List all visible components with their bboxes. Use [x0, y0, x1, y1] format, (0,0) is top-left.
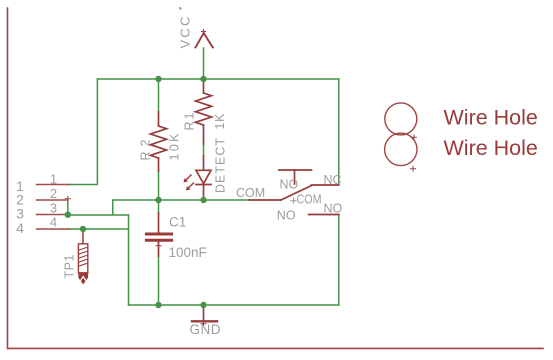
- svg-text:R1: R1: [183, 112, 197, 130]
- svg-text:1K: 1K: [213, 113, 227, 130]
- junction middle rail at C1: [155, 197, 161, 203]
- wire C1 bottom: [158, 256, 160, 305]
- switch lever: [281, 186, 312, 201]
- wire pin 2 drop: [67, 200, 69, 215]
- power VCC arrow: [196, 30, 213, 48]
- resistor R1: [196, 81, 212, 144]
- test point TP1: [78, 232, 87, 284]
- svg-text:Wire Hole: Wire Hole: [444, 105, 538, 129]
- svg-text:Wire Hole: Wire Hole: [444, 136, 538, 160]
- svg-text:NO: NO: [280, 178, 299, 192]
- svg-text:COM: COM: [297, 193, 322, 207]
- wire top VCC rail: [97, 78, 338, 80]
- svg-text:DETECT: DETECT: [214, 138, 228, 193]
- speck near VCC: [179, 7, 182, 10]
- svg-text:COM: COM: [236, 186, 265, 200]
- svg-text:NC: NC: [324, 173, 342, 187]
- svg-text:3: 3: [50, 201, 57, 216]
- connector pin 1: [37, 184, 70, 186]
- svg-text:10K: 10K: [168, 133, 182, 161]
- wire R2 top: [158, 79, 160, 112]
- svg-text:4: 4: [50, 214, 57, 229]
- svg-text:VCC: VCC: [178, 17, 193, 49]
- junction bottom rail at GND: [200, 302, 206, 308]
- LED DETECT: [196, 156, 211, 198]
- capacitor C1: [146, 213, 171, 256]
- switch COM line: [249, 199, 281, 201]
- connector pin 3: [37, 214, 66, 216]
- junction bottom rail at C1: [155, 302, 161, 308]
- wire pin 4 to left vertical of GND rail: [69, 215, 129, 305]
- wire C1 top: [158, 200, 160, 213]
- junction middle rail at LED: [200, 197, 206, 203]
- junction pin 4: [80, 226, 86, 232]
- svg-text:100nF: 100nF: [169, 245, 207, 260]
- junction pin 3: [65, 212, 71, 218]
- svg-text:C1: C1: [169, 215, 186, 230]
- svg-text:R2: R2: [139, 139, 153, 160]
- wire R2 bottom: [158, 171, 160, 200]
- svg-text:4: 4: [16, 220, 24, 236]
- switch NC line: [312, 184, 339, 186]
- switch origin cross and label COM: [291, 193, 322, 207]
- ground GND: [192, 305, 217, 326]
- svg-text:GND: GND: [190, 322, 222, 337]
- LED arrows: [184, 175, 194, 191]
- resistor R2: [151, 112, 167, 171]
- switch actuator T-bar: [279, 170, 312, 184]
- svg-text:2: 2: [50, 186, 57, 201]
- wire hole circle 2: [385, 133, 417, 171]
- wire R1 to LED: [203, 144, 205, 156]
- connector pin 2: [37, 196, 71, 201]
- wire right vertical lower (NO to GND rail): [338, 215, 340, 306]
- junction top rail at R2: [155, 76, 161, 82]
- svg-text:TP1: TP1: [63, 254, 77, 278]
- connector pin 4: [37, 228, 70, 230]
- wire bottom GND rail: [129, 304, 339, 306]
- wire hole circle 1: [385, 103, 417, 140]
- wire middle rail: [113, 199, 249, 201]
- svg-text:NO: NO: [277, 209, 296, 223]
- junction top rail at R1: [200, 76, 206, 82]
- switch NO line: [309, 214, 339, 216]
- wire left vertical to pin 1: [69, 79, 97, 185]
- wire right vertical upper (VCC to NC): [338, 79, 340, 185]
- svg-text:1: 1: [50, 172, 57, 187]
- wire VCC stub: [203, 48, 205, 79]
- svg-text:NO: NO: [324, 202, 343, 216]
- wire from pins 2/3 junction to middle rail: [68, 200, 129, 215]
